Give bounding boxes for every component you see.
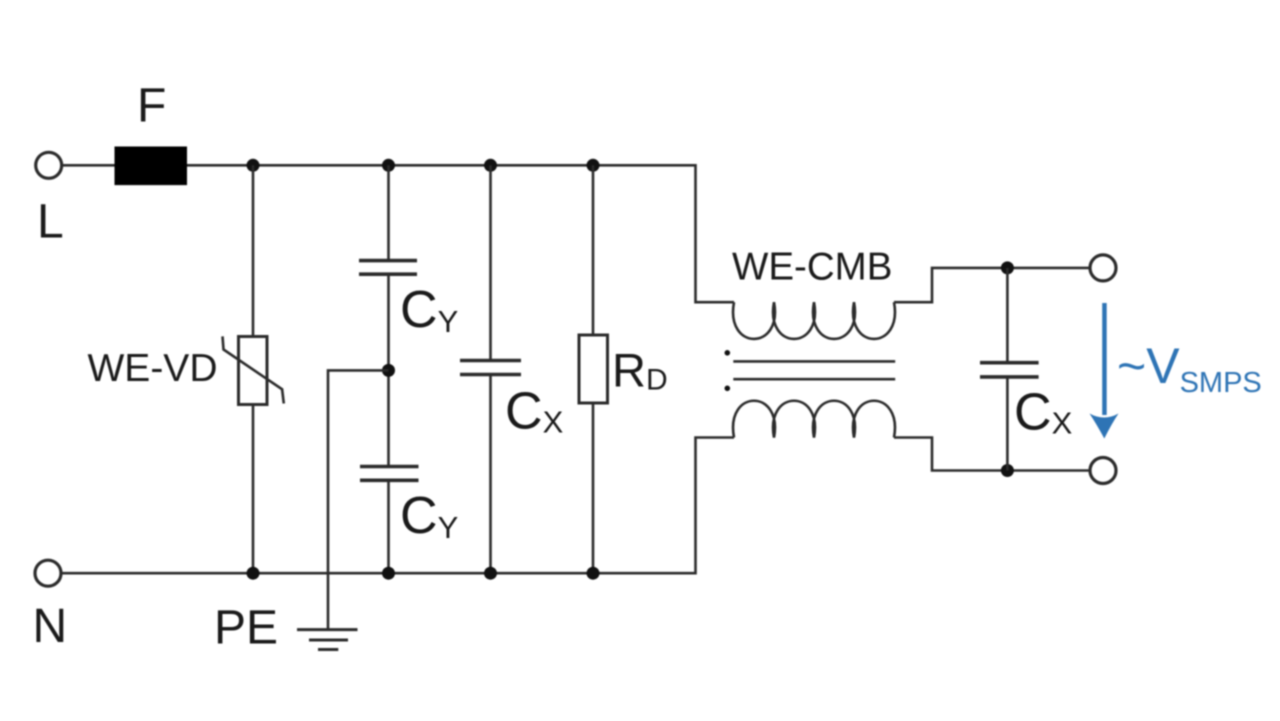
svg-text:F: F: [137, 80, 166, 133]
wire choke top right: [894, 268, 1090, 302]
capacitor CX (load side): [980, 363, 1039, 377]
svg-text:CY: CY: [400, 487, 458, 545]
node top rail / CX: [484, 159, 497, 172]
transformer core: [733, 361, 895, 379]
terminal output top: [1090, 255, 1116, 281]
varistor WE-VD: [223, 336, 284, 404]
resistor RD: [579, 335, 608, 403]
wire CY branch top lead: [387, 165, 390, 261]
wire CX bottom lead: [489, 375, 492, 574]
wire CY bottom lead: [387, 480, 390, 573]
polarity dot secondary: [725, 386, 731, 392]
node top rail / CY: [382, 159, 395, 172]
node CY midpoint: [382, 364, 395, 377]
wire choke bottom right: [894, 438, 1090, 471]
arrow VSMPS: [1090, 303, 1119, 439]
svg-text:CX: CX: [1014, 384, 1073, 442]
wire output CX top lead: [1006, 268, 1009, 363]
svg-text:L: L: [37, 196, 64, 249]
wire top rail: [187, 165, 734, 302]
node bottom rail / varistor: [247, 567, 260, 580]
wire L terminal to fuse: [62, 164, 115, 167]
wire CX branch top lead: [489, 165, 492, 360]
fuse F: [115, 147, 188, 186]
transformer WE-CMB secondary winding: [733, 401, 895, 438]
wire varistor bottom lead: [252, 405, 255, 574]
node top rail / varistor: [247, 159, 260, 172]
capacitor CX (line side): [460, 361, 521, 375]
svg-text:WE-VD: WE-VD: [88, 347, 218, 390]
svg-text:CX: CX: [505, 383, 564, 441]
node output bottom: [1001, 464, 1014, 477]
wire PE tap: [328, 370, 389, 629]
terminal output bottom: [1090, 458, 1116, 484]
node bottom rail / CY: [382, 567, 395, 580]
transformer WE-CMB primary winding: [733, 302, 895, 339]
svg-text:PE: PE: [214, 602, 278, 655]
svg-text:N: N: [33, 600, 68, 653]
svg-text:WE-CMB: WE-CMB: [732, 246, 892, 289]
node top rail / RD: [587, 159, 600, 172]
wire output CX bottom lead: [1006, 377, 1009, 471]
terminal N: [35, 560, 61, 586]
capacitor CY (upper): [359, 261, 417, 275]
wire RD top lead: [592, 165, 595, 335]
node bottom rail / CX: [484, 567, 497, 580]
capacitor CY (lower): [360, 467, 419, 481]
ground PE: [297, 630, 358, 650]
wire CY middle lead: [387, 274, 390, 466]
node output top: [1001, 261, 1014, 274]
svg-text:CY: CY: [400, 281, 458, 339]
node bottom rail / RD: [587, 567, 600, 580]
wire RD bottom lead: [592, 403, 595, 574]
polarity dot primary: [725, 350, 731, 356]
svg-text:~VSMPS: ~VSMPS: [1117, 338, 1262, 399]
wire bottom rail: [62, 438, 735, 574]
wire varistor top lead: [252, 165, 255, 336]
terminal L: [36, 152, 62, 178]
svg-text:RD: RD: [612, 344, 668, 397]
